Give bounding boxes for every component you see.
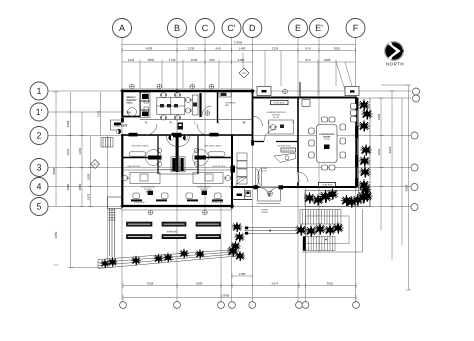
svg-text:1: 1 — [36, 86, 41, 96]
bubble E — [289, 19, 308, 38]
bubble F — [346, 19, 365, 38]
corkboard bottom — [319, 183, 336, 187]
grid line C — [204, 38, 206, 212]
svg-text:CORK BRD: CORK BRD — [322, 184, 333, 187]
admin bottom wall — [253, 141, 265, 143]
chairs rows — [133, 193, 140, 199]
reception desk — [281, 148, 296, 152]
svg-text:1503: 1503 — [191, 58, 198, 62]
fire exit stair hatch — [101, 138, 113, 148]
svg-text:1740: 1740 — [169, 58, 176, 62]
svg-text:3124: 3124 — [272, 47, 279, 51]
grid line C' — [231, 38, 233, 302]
svg-text:4228: 4228 — [196, 282, 203, 286]
svg-text:1480: 1480 — [239, 272, 246, 276]
wall stub at C — [199, 93, 201, 117]
svg-text:1480: 1480 — [239, 47, 246, 51]
grid row 5 — [49, 206, 412, 208]
tags on top wall — [130, 84, 135, 89]
svg-text:875: 875 — [305, 58, 310, 62]
wall D upper — [252, 91, 254, 142]
wall piers on right wall — [121, 89, 358, 208]
svg-text:DRAIN: DRAIN — [261, 211, 268, 214]
grid line E2 — [305, 188, 307, 302]
wall C' — [231, 135, 233, 209]
svg-text:C': C' — [227, 23, 235, 33]
bubble 1' — [30, 103, 48, 121]
bubble C — [196, 19, 215, 38]
hall door right — [210, 133, 219, 137]
grid row 1 — [49, 90, 412, 92]
svg-text:2F-05: 2F-05 — [145, 191, 151, 194]
right office desk — [193, 173, 223, 184]
svg-text:2F-04: 2F-04 — [273, 116, 279, 119]
grid line C2 — [220, 200, 222, 302]
bubble D — [243, 19, 262, 38]
svg-text:9925: 9925 — [405, 184, 409, 191]
stair mid plants — [295, 224, 307, 236]
lobby door blob — [231, 166, 236, 173]
bubble 1 — [30, 82, 48, 100]
svg-text:3880: 3880 — [78, 183, 82, 190]
svg-text:1175: 1175 — [97, 110, 101, 117]
lobby inner door — [236, 177, 245, 186]
svg-text:C: C — [202, 23, 209, 33]
office door left — [148, 156, 160, 160]
left office desk — [130, 173, 160, 184]
bubble E' — [310, 19, 329, 38]
svg-text:8000: 8000 — [52, 167, 56, 174]
bubble 4 — [30, 178, 48, 196]
hall bottom wall — [122, 134, 253, 136]
svg-text:OFFICE: OFFICE — [272, 114, 281, 117]
svg-text:875: 875 — [305, 47, 310, 51]
svg-text:SECURITY AREA: SECURITY AREA — [132, 145, 149, 148]
svg-text:920: 920 — [209, 58, 214, 62]
svg-text:ROOM: ROOM — [323, 136, 330, 139]
wall end stubs — [251, 140, 283, 189]
svg-text:RECEPTION: RECEPTION — [283, 149, 295, 152]
bottom wall sill line — [122, 209, 233, 211]
corkboard sign top — [271, 101, 289, 105]
svg-text:A: A — [119, 23, 125, 33]
svg-text:RECEPTION: RECEPTION — [278, 145, 291, 148]
svg-text:5925: 5925 — [388, 146, 392, 153]
hall doors — [146, 124, 157, 135]
svg-text:ADMINISTRATION: ADMINISTRATION — [267, 111, 286, 114]
column markers on bottom wall — [148, 210, 153, 215]
svg-text:1170: 1170 — [128, 58, 135, 62]
svg-text:3625: 3625 — [334, 47, 341, 51]
left block left wall — [121, 90, 123, 118]
svg-text:2%: 2% — [127, 111, 132, 115]
bubble A — [113, 19, 132, 38]
svg-text:2: 2 — [36, 131, 41, 141]
grid line A — [121, 38, 123, 302]
svg-text:SECURITY AREA: SECURITY AREA — [205, 145, 222, 148]
grid row 1' — [49, 111, 123, 113]
left block top wall — [121, 90, 252, 93]
svg-text:4528: 4528 — [147, 282, 154, 286]
grid line D — [251, 38, 253, 302]
junction dots — [251, 89, 255, 93]
pantry bottom wall — [122, 116, 140, 118]
svg-text:E: E — [295, 23, 301, 33]
svg-text:1': 1' — [36, 107, 43, 117]
svg-text:NEW OFFICE: NEW OFFICE — [212, 165, 226, 168]
admin door — [264, 130, 276, 142]
fire exit door — [114, 123, 121, 126]
svg-text:CONFERENCE: CONFERENCE — [319, 133, 335, 136]
right block top wall — [253, 97, 358, 99]
svg-text:4: 4 — [36, 182, 41, 192]
svg-text:5: 5 — [36, 202, 41, 212]
svg-text:2F-01: 2F-01 — [261, 170, 267, 173]
hall door left — [129, 133, 138, 137]
svg-text:NORTH: NORTH — [386, 62, 404, 67]
office door right — [195, 156, 207, 160]
storage door arc — [202, 106, 212, 116]
angled desk right — [193, 95, 199, 115]
left block bottom wall — [122, 205, 233, 207]
pantry right wall — [139, 91, 141, 118]
svg-text:3: 3 — [36, 163, 41, 173]
grid line E' — [318, 38, 320, 253]
svg-text:2850: 2850 — [148, 58, 155, 62]
svg-text:PARKING: PARKING — [167, 230, 178, 233]
svg-text:H A L L W A Y: H A L L W A Y — [145, 120, 305, 124]
svg-text:1828: 1828 — [324, 58, 331, 62]
bubble 2 — [30, 127, 48, 145]
toilet double door at B — [172, 133, 182, 138]
svg-text:17850: 17850 — [221, 294, 230, 298]
hall front partition — [140, 119, 253, 121]
fire exit door leaf — [121, 118, 124, 123]
svg-text:F: F — [353, 23, 359, 33]
svg-text:B: B — [174, 23, 180, 33]
svg-text:COUNTER 2: COUNTER 2 — [211, 201, 224, 204]
sign boxes on top wall — [257, 87, 271, 96]
svg-text:FIRE EXIT: FIRE EXIT — [114, 123, 128, 127]
svg-text:CORK BRD: CORK BRD — [274, 102, 285, 105]
svg-text:HALL: HALL — [127, 102, 134, 105]
svg-text:COUNTER 1: COUNTER 1 — [134, 201, 147, 204]
offices middle wall — [122, 157, 149, 159]
grid row 1b right — [357, 97, 411, 99]
bubble C' — [222, 19, 241, 38]
svg-text:4528: 4528 — [146, 47, 153, 51]
bubble 5 — [30, 198, 48, 216]
hall center badge — [178, 123, 184, 130]
svg-text:2130: 2130 — [188, 47, 195, 51]
grid line F — [355, 38, 357, 302]
svg-text:5574: 5574 — [272, 282, 279, 286]
svg-text:NEW OFFICE: NEW OFFICE — [127, 165, 141, 168]
grid row 4 — [49, 186, 412, 188]
toilet wall at B — [176, 136, 179, 172]
svg-text:3203: 3203 — [377, 148, 381, 155]
lobby inner double doors — [256, 169, 260, 186]
bubble B — [168, 19, 187, 38]
svg-text:1905: 1905 — [87, 173, 91, 180]
ticks on dim line — [122, 48, 356, 53]
grid row 2 — [49, 135, 412, 137]
svg-text:2F-02: 2F-02 — [324, 138, 330, 141]
svg-text:E': E' — [315, 23, 323, 33]
waiting chairs — [237, 153, 247, 161]
counters dark bars — [131, 191, 223, 202]
plant cluster left of walkway — [232, 222, 242, 233]
door swings — [146, 150, 162, 166]
side chairs right wall — [351, 104, 357, 110]
svg-text:2388: 2388 — [66, 120, 70, 127]
svg-text:1480: 1480 — [238, 58, 245, 62]
conference door — [298, 172, 308, 182]
grid line E — [297, 38, 299, 302]
svg-text:1905: 1905 — [377, 113, 381, 120]
security bench — [129, 152, 146, 156]
svg-text:D: D — [249, 23, 256, 33]
svg-text:940: 940 — [215, 47, 220, 51]
right block right wall — [355, 98, 357, 188]
storage left wall — [217, 91, 219, 123]
svg-text:3880: 3880 — [66, 183, 70, 190]
svg-text:3263: 3263 — [66, 148, 70, 155]
svg-text:4650: 4650 — [54, 231, 58, 238]
bubble 3 — [30, 159, 48, 177]
svg-text:2F-06: 2F-06 — [201, 191, 207, 194]
svg-text:3625: 3625 — [327, 282, 334, 286]
svg-text:17850: 17850 — [234, 41, 243, 45]
svg-text:1975: 1975 — [87, 193, 91, 200]
svg-text:3263: 3263 — [78, 147, 82, 154]
right block bottom wall — [232, 186, 260, 188]
conference left wall — [297, 98, 299, 173]
window diamond tags — [91, 68, 250, 169]
grid line B — [176, 38, 178, 302]
grid row 3 — [49, 167, 412, 169]
svg-text:RM: RM — [225, 104, 229, 107]
extension lines to wall — [140, 51, 336, 96]
